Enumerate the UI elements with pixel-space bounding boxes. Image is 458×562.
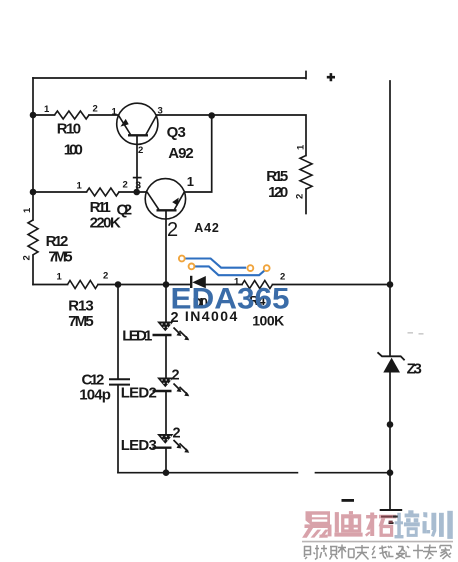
wire R10 leads [33,114,118,116]
node R10 left junction [30,112,37,119]
watermark char 拓 [365,513,396,537]
svg-text:7M5: 7M5 [48,249,72,266]
label R12 [46,233,69,250]
svg-text:1: 1 [77,181,83,192]
svg-text:1: 1 [112,107,118,118]
label R10 value 100 [64,141,83,158]
svg-text:2: 2 [93,104,98,115]
pin R12-2 [22,255,33,260]
label R11 value 220K [90,215,121,232]
svg-text:Z3: Z3 [407,361,422,378]
pin Q3-1 [112,107,118,118]
label R10 [57,120,81,137]
svg-text:2: 2 [172,368,180,384]
svg-text:EDA365: EDA365 [171,283,290,316]
pin R13-1 [57,272,63,283]
node Q3 collector junction [208,112,215,119]
svg-text:2: 2 [173,426,181,442]
svg-text:R13: R13 [68,297,94,314]
svg-text:A92: A92 [168,145,193,162]
svg-text:R10: R10 [57,120,81,137]
node D10 anode junction [163,281,170,288]
wire top rail [33,72,306,79]
zener Z3 [378,352,405,372]
transistor Q2 [145,179,185,219]
watermark char 计 [406,545,423,559]
wire LED column [165,285,167,473]
watermark char 迪 [334,511,362,536]
pin Q2-1 [187,174,194,189]
wire mid rail segments [33,284,390,286]
svg-text:LED2: LED2 [121,385,157,402]
watermark text 易迪拓培训 [302,510,453,539]
label Q3 [167,124,186,141]
pin Q3-3 [158,106,163,117]
svg-text:1: 1 [187,174,194,189]
svg-text:7M5: 7M5 [68,313,94,330]
svg-text:1: 1 [44,104,50,115]
svg-text:100: 100 [64,141,83,158]
svg-text:2: 2 [103,271,108,282]
svg-text:1: 1 [22,207,33,213]
svg-text:LED3: LED3 [121,437,157,454]
pin Q3-2 [138,145,143,156]
transistor Q3 [117,103,158,144]
watermark char 和 [338,545,355,559]
label R15 [266,168,288,185]
label R13 [68,297,94,314]
watermark char 训 [423,511,453,539]
label LED2 [121,385,157,402]
watermark rule [302,541,453,543]
pin Q2-3 [133,178,142,192]
plus terminal [327,73,335,81]
pin LED2-2 [172,368,180,384]
pin R12-1 [22,207,33,213]
wire C12 column [117,285,119,473]
pin R11-2 [123,180,128,191]
wire Q2 emitter down [165,211,167,285]
svg-text:R15: R15 [266,168,288,185]
node R13 junction [115,281,122,288]
wire R11 leads [33,191,147,193]
pin R10-2 [93,104,98,115]
node Q2 base junction [133,189,140,196]
node bottom right junction [387,469,394,476]
label R14 value 100K [252,313,284,329]
svg-text:120: 120 [268,184,288,201]
wire bottom right segment [316,472,391,474]
watermark char 培 [395,510,420,538]
pin Q2-2 [167,219,178,241]
label Q2 type A42 [194,221,219,235]
ground [380,510,403,523]
watermark char 线 [372,546,390,559]
label LED3 [121,437,157,454]
svg-text:2: 2 [22,255,33,260]
svg-text:3: 3 [135,180,141,192]
node right rail mid junction [387,281,394,288]
wire left rail upper [32,78,34,220]
svg-text:104p: 104p [79,387,111,404]
LED LED1 [153,322,190,341]
pin R14-2 [280,272,285,283]
label D10 type IN4004 [185,308,238,324]
label R13 value 7M5 [68,313,94,330]
pin R14-1 [234,277,240,288]
watermark char 射 [304,545,319,560]
label R11 [90,199,111,216]
capacitor C12 [109,379,130,384]
wire right rail [389,81,391,510]
svg-text:R11: R11 [90,199,111,216]
label Z3 [407,361,422,378]
svg-text:2: 2 [280,272,285,283]
svg-text:1: 1 [296,144,307,150]
pin LED1-2 [171,310,179,326]
EDA365 logo traces and pads [179,256,270,276]
label R15 value 120 [268,184,288,201]
svg-text:2: 2 [138,145,143,156]
pin R15-1 [296,144,307,150]
pin R13-2 [103,271,108,282]
wire Q3 collector to R15 [157,115,306,156]
label Q2 [117,202,133,219]
svg-text:R12: R12 [46,233,69,250]
resistor R12 [28,220,38,255]
label LED1 [122,328,152,345]
watermark char 天 [355,545,369,560]
EDA365 logo text [171,283,290,316]
wire R15 bottom stub [305,189,307,214]
label R12 value 7M5 [48,249,72,266]
svg-text:3: 3 [158,106,163,117]
node LED bottom junction [163,469,170,476]
svg-text:A42: A42 [194,221,219,235]
pin R15-2 [295,194,306,199]
svg-text:LED1: LED1 [122,328,152,345]
svg-text:Q2: Q2 [117,202,133,219]
watermark char 易 [302,511,331,538]
pin R11-1 [77,181,83,192]
minus terminal [342,499,355,502]
svg-text:2: 2 [123,180,128,191]
watermark char 家 [440,546,451,560]
svg-text:2: 2 [295,194,306,199]
svg-text:1: 1 [57,272,63,283]
label Q3 type A92 [168,145,193,162]
watermark char 设 [389,546,405,559]
resistor R14 [242,281,272,289]
watermark char 专 [423,545,437,560]
wire Q2 pin1 up to node [185,116,212,192]
node R11 left junction [30,189,37,196]
label C12 [82,372,105,389]
resistor R13 [68,281,99,289]
wire left rail lower [32,255,34,285]
resistor R11 [87,188,119,196]
label R14 [249,293,266,308]
scan speck marks [408,333,424,334]
label C12 value 104p [79,387,111,404]
pin R10-1 [44,104,50,115]
resistor R10 [55,111,90,119]
watermark text 射频和天线设计专家 [304,545,451,560]
svg-text:Q3: Q3 [167,124,186,141]
ground show-through patches [381,516,398,524]
wire Q3 base down [136,136,138,193]
LED LED3 [153,434,190,453]
diode D10 [191,276,206,289]
label D10 [193,295,208,310]
node right rail lower junction [387,421,394,428]
LED LED2 [153,378,190,397]
pin LED3-2 [173,426,181,442]
resistor R15 [300,156,312,190]
wire bottom left segment [118,472,297,474]
svg-text:2: 2 [167,219,178,241]
watermark char 频 [320,545,338,560]
